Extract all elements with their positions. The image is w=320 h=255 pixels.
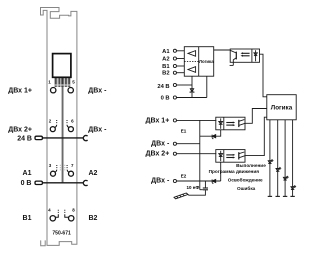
svg-text:ДВх 2+: ДВх 2+ <box>146 150 170 157</box>
svg-text:ДВх 1+: ДВх 1+ <box>8 87 32 94</box>
svg-text:24 В: 24 В <box>157 84 169 90</box>
svg-text:Освобождение: Освобождение <box>228 177 263 183</box>
svg-text:24 В: 24 В <box>17 136 32 143</box>
svg-text:E2: E2 <box>181 174 187 179</box>
svg-text:A1: A1 <box>162 49 170 55</box>
svg-text:A2: A2 <box>162 57 169 63</box>
svg-text:ДВх 1+: ДВх 1+ <box>146 118 170 125</box>
svg-text:ДВх 2+: ДВх 2+ <box>8 126 32 133</box>
svg-text:B2: B2 <box>89 215 98 222</box>
svg-text:Логика: Логика <box>271 105 293 112</box>
svg-text:Логика: Логика <box>199 59 214 64</box>
svg-text:B2: B2 <box>162 71 169 77</box>
svg-text:750-671: 750-671 <box>52 230 71 236</box>
svg-text:ДВх -: ДВх - <box>88 87 107 94</box>
svg-text:E1: E1 <box>181 128 187 133</box>
svg-text:Выполнение: Выполнение <box>236 163 266 168</box>
svg-text:B1: B1 <box>23 215 32 222</box>
svg-text:10 нФ: 10 нФ <box>186 185 199 190</box>
svg-text:A1: A1 <box>23 170 32 177</box>
svg-text:Ошибка: Ошибка <box>237 185 256 191</box>
svg-text:ДВх -: ДВх - <box>151 178 170 185</box>
svg-text:B1: B1 <box>162 64 170 70</box>
svg-text:ДВх -: ДВх - <box>151 140 170 147</box>
svg-text:ДВх -: ДВх - <box>88 126 107 133</box>
svg-text:Программа движения: Программа движения <box>209 169 260 174</box>
svg-text:0 В: 0 В <box>161 96 170 102</box>
svg-text:0 В: 0 В <box>21 180 32 187</box>
svg-text:A2: A2 <box>89 170 98 177</box>
